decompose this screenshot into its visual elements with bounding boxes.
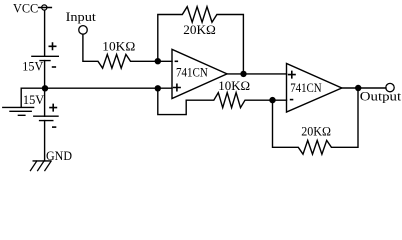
svg-text:15V: 15V bbox=[23, 93, 44, 107]
svg-text:10KΩ: 10KΩ bbox=[218, 79, 250, 93]
svg-text:20KΩ: 20KΩ bbox=[183, 23, 216, 37]
svg-text:741CN: 741CN bbox=[290, 81, 322, 95]
svg-text:15V: 15V bbox=[22, 59, 43, 73]
svg-text:Input: Input bbox=[66, 10, 97, 24]
svg-text:Output: Output bbox=[360, 90, 402, 104]
svg-text:741CN: 741CN bbox=[176, 66, 208, 80]
svg-text:10KΩ: 10KΩ bbox=[102, 39, 135, 53]
svg-text:VCC: VCC bbox=[13, 1, 38, 15]
svg-text:GND: GND bbox=[46, 149, 72, 163]
svg-text:20KΩ: 20KΩ bbox=[301, 125, 331, 139]
